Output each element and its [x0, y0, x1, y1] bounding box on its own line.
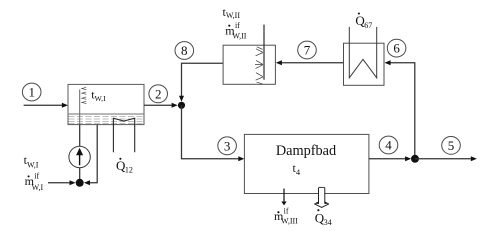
heat exchanger I vessel [68, 84, 144, 124]
svg-text:Dampfbad: Dampfbad [276, 143, 336, 159]
svg-text:tW,II: tW,II [223, 5, 241, 20]
junction J3 [76, 179, 84, 187]
outlet wire from J2 to right [415, 158, 472, 160]
wire node1 to heat exchanger I [24, 104, 63, 106]
wire vessel I to junction J1 [144, 104, 173, 106]
svg-text:3: 3 [224, 138, 231, 153]
junction J1 [178, 102, 185, 109]
wire from J2 up and into HX67 [390, 63, 415, 159]
heating coil of HX67 [349, 27, 376, 78]
node 4 [379, 136, 398, 154]
Dampfbad vessel [244, 134, 369, 193]
arrowhead outlet [471, 156, 477, 161]
feed pipe into exchanger II [263, 25, 265, 80]
svg-text:7: 7 [304, 43, 311, 58]
wire Dampfbad to J2 [369, 158, 407, 160]
spray pipe inside vessel I [79, 90, 81, 125]
arrowhead into exchanger II right [276, 60, 282, 65]
svg-text:mifW,I: mifW,I [25, 172, 44, 192]
arrowhead into HX67 right [385, 60, 391, 65]
svg-text:1: 1 [28, 85, 35, 100]
arrowhead into J1 from left [172, 103, 178, 108]
arrowhead into J3 from left [70, 180, 76, 185]
svg-text:Q67: Q67 [355, 13, 372, 30]
svg-text:tW,I: tW,I [91, 88, 106, 103]
svg-text:6: 6 [393, 41, 400, 56]
junction J2 [411, 155, 419, 163]
label m_W,II [225, 21, 247, 41]
node 8 [175, 42, 194, 60]
svg-text:8: 8 [181, 43, 188, 58]
svg-text:Q34: Q34 [315, 211, 332, 228]
label Q_12 [116, 158, 133, 175]
svg-text:mifW,II: mifW,II [225, 21, 247, 41]
condensate drain arrow m_W,III [281, 189, 286, 206]
drain wire from vessel I to junction J3 [89, 125, 97, 183]
wire HX67 to exchanger II [281, 62, 344, 64]
water level lines in heat exchanger I [68, 114, 144, 123]
heat exchanger II vessel [223, 45, 275, 84]
arrowhead into J1 from top [179, 96, 184, 102]
node 1 [22, 83, 41, 101]
label m_W,III [274, 206, 298, 225]
spray nozzle marks II [255, 47, 263, 84]
node 3 [218, 137, 237, 155]
svg-text:2: 2 [155, 86, 162, 101]
svg-text:Q12: Q12 [116, 158, 133, 175]
node 7 [298, 41, 317, 59]
arrowhead into J3 from right [84, 180, 90, 185]
heat loss block arrow Q_34 [314, 187, 329, 207]
svg-text:mifW,III: mifW,III [274, 206, 298, 225]
svg-text:t4: t4 [293, 161, 301, 177]
svg-text:5: 5 [448, 138, 455, 153]
label m_W,I feed [25, 172, 44, 192]
heating coil in vessel I [113, 118, 134, 152]
wire from J1 down and into Dampfbad [182, 105, 240, 159]
spray nozzle marks I [82, 87, 87, 103]
arrowhead into heat exchanger I [62, 103, 68, 108]
pump riser wire below vessel I [79, 125, 81, 183]
node 6 [387, 39, 406, 57]
pump [69, 146, 90, 167]
node 5 [442, 137, 461, 155]
wire from exchanger II to corner and down into J1 [182, 63, 224, 97]
node 2 [149, 85, 168, 103]
makeup water wire into J3 [48, 182, 71, 184]
svg-text:4: 4 [385, 138, 392, 153]
svg-text:tW,I: tW,I [24, 153, 39, 169]
arrowhead into Dampfbad left [238, 156, 244, 161]
arrowhead into J2 from left [405, 156, 411, 161]
heat exchanger 67 vessel [344, 43, 385, 85]
label Q_67 [355, 12, 372, 29]
label Q_34 [315, 209, 332, 227]
